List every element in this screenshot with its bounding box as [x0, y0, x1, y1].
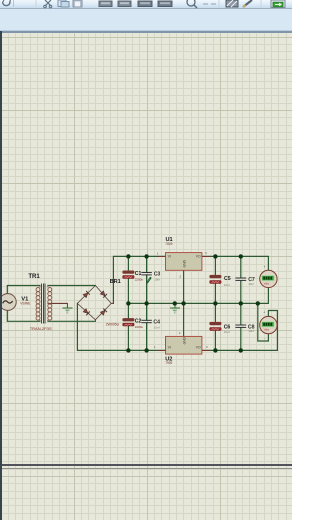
wire U1 GND pin to mid rail: [183, 270, 185, 303]
capacitor C1 leads: [127, 256, 129, 303]
junction ground / mid rail: [173, 301, 177, 305]
junction C6 / bottom rail: [213, 348, 217, 352]
wire TR1 secondary bottom to BR1 bottom: [48, 320, 95, 322]
svg-text:10nf: 10nf: [154, 325, 160, 329]
capacitor C4 (ceramic): [141, 320, 151, 322]
wire top rail right of U1 to voltmeter VM1: [202, 256, 269, 270]
diode D-topleft of BR1: [83, 291, 90, 298]
wire VM2 minus to mid rail: [258, 303, 269, 341]
bridge rectifier BR1: [77, 286, 113, 322]
svg-text:TR1: TR1: [28, 274, 40, 280]
svg-text:+: +: [263, 311, 265, 315]
ground (mid rail): [170, 303, 179, 313]
capacitor C8 (ceramic): [235, 325, 246, 327]
capacitor C4 leads: [146, 303, 148, 350]
svg-text:-: -: [264, 291, 265, 295]
scissors: [45, 0, 51, 6]
capacitor C7 (ceramic): [235, 278, 246, 280]
wire TR1 center tap to ground: [48, 302, 67, 304]
wire U2 GND pin to mid rail: [183, 303, 185, 336]
junction C1-C2 / mid rail: [126, 301, 130, 305]
svg-text:7909: 7909: [165, 361, 172, 365]
wire V1 bottom to TR1 primary: [7, 310, 40, 321]
capacitor C6 leads: [214, 303, 216, 350]
wire mid rail 0V: [128, 288, 268, 304]
diode D-bottomleft of BR1: [83, 308, 90, 315]
wire BR1 left corner to bottom rail (negative): [77, 303, 165, 350]
junction VM2 return / mid rail: [256, 301, 260, 305]
junction U1-U2 GND / mid rail: [181, 301, 185, 305]
junction C7-C8 / mid rail: [239, 301, 243, 305]
svg-text:2200u: 2200u: [135, 277, 144, 281]
voltage regulator U1 7809: [166, 253, 202, 271]
capacitor C6 (electrolytic): [210, 322, 221, 330]
pin 1 stub of U1: [158, 255, 166, 257]
svg-text:2200u: 2200u: [135, 325, 144, 329]
svg-text:10uf: 10uf: [224, 330, 230, 334]
svg-text:VO: VO: [196, 255, 201, 259]
wire bottom rail right of U2 to voltmeter VM2 plus: [202, 311, 278, 351]
capacitor C3 leads: [146, 256, 148, 303]
junction C1 / top rail: [126, 254, 130, 258]
svg-text:2: 2: [179, 331, 181, 335]
junction C5-C6 / mid rail: [213, 301, 217, 305]
svg-text:+: +: [264, 265, 266, 269]
pin 3 stub of U2: [202, 349, 210, 351]
transformer TR1: [36, 286, 52, 322]
svg-text:7809: 7809: [165, 242, 172, 246]
capacitor C2 leads: [127, 303, 129, 350]
copy icon: [58, 0, 66, 7]
junction C3 / top rail: [144, 254, 148, 258]
capacitor C7 leads: [240, 256, 242, 303]
junction C8 / bottom rail: [239, 348, 243, 352]
svg-text:C2: C2: [135, 319, 142, 325]
junction C3-C4 / mid rail: [144, 301, 148, 305]
svg-text:2W005G: 2W005G: [106, 322, 120, 326]
junction C2 / bottom rail: [126, 348, 130, 352]
svg-text:VI: VI: [168, 346, 171, 350]
hatched square icon: [226, 0, 238, 7]
pin 1 stub of U2: [158, 349, 166, 351]
block icons: [99, 1, 172, 7]
svg-text:C1: C1: [135, 271, 142, 277]
capacitor C8 leads: [240, 303, 242, 350]
pencil: [243, 0, 252, 7]
junction C4 / bottom rail: [144, 348, 148, 352]
svg-text:Volts: Volts: [264, 282, 270, 285]
svg-text:10uf: 10uf: [224, 283, 230, 287]
svg-text:10nf: 10nf: [248, 282, 254, 286]
pin 2 stub of U2: [183, 329, 185, 336]
current arrow mark on C3: [147, 277, 151, 283]
capacitor C3 (ceramic): [141, 273, 151, 275]
undo/redo arrows: [3, 2, 11, 6]
wire TR1 secondary top to BR1 top: [48, 285, 95, 287]
magnifier: [187, 0, 195, 6]
voltmeter VM1: [260, 265, 277, 295]
svg-text:10nf: 10nf: [154, 277, 160, 281]
ground (center tap): [63, 303, 72, 313]
capacitor C1 (electrolytic): [123, 271, 134, 278]
svg-text:10nf: 10nf: [248, 329, 254, 333]
svg-text:GND: GND: [183, 260, 187, 268]
pin 2 stub of U1: [183, 270, 185, 277]
paste icon: [73, 0, 82, 7]
sine source V1: [0, 294, 16, 311]
svg-text:BR1: BR1: [110, 279, 121, 285]
svg-text:VO: VO: [196, 346, 201, 350]
svg-text:Volts: Volts: [264, 329, 270, 332]
junction C7 / top rail: [239, 254, 243, 258]
svg-text:1: 1: [154, 345, 156, 349]
svg-text:3: 3: [206, 345, 208, 349]
voltage regulator U2 7909: [166, 336, 202, 354]
svg-text:VI: VI: [168, 255, 171, 259]
junction C5 / top rail: [213, 254, 217, 258]
svg-text:TRAN-2P3S: TRAN-2P3S: [30, 326, 52, 331]
svg-text:C5: C5: [224, 276, 231, 282]
capacitor C5 (electrolytic): [210, 275, 221, 283]
svg-text:VSINE: VSINE: [20, 301, 31, 305]
svg-text:1: 1: [157, 251, 159, 255]
voltmeter VM2: [260, 311, 277, 341]
pin 3 stub of U1: [202, 255, 210, 257]
svg-text:2: 2: [179, 275, 181, 279]
green paste icon: [271, 0, 285, 8]
diode D-bottomright of BR1: [100, 309, 107, 316]
svg-text:3: 3: [205, 251, 207, 255]
capacitor C2 (electrolytic): [123, 319, 134, 326]
wire V1 top to TR1 primary: [7, 286, 40, 295]
capacitor C5 leads: [214, 256, 216, 303]
diode D-topright of BR1: [100, 291, 107, 298]
toolbar icons strip: [0, 0, 292, 9]
TR1 core: [42, 283, 45, 323]
svg-text:-: -: [264, 337, 265, 341]
wire BR1 right corner to top rail (positive): [113, 256, 165, 303]
svg-text:GND: GND: [183, 336, 187, 344]
